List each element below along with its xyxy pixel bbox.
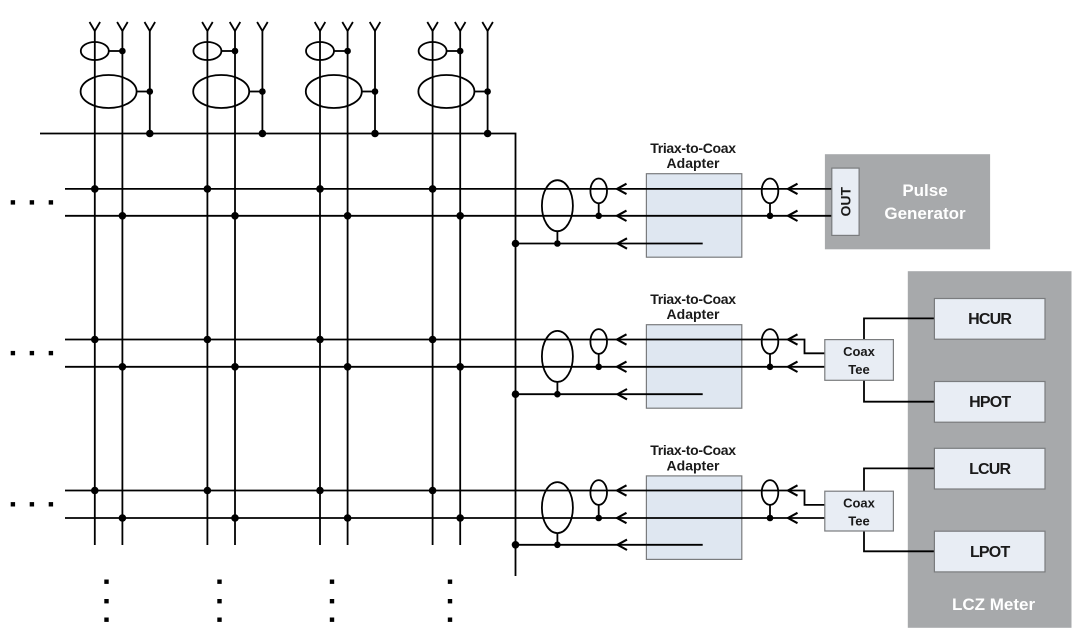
row 1 shield wire 3 [516,243,703,245]
junction row 2 wire1 x column 2a [204,336,212,344]
column group 2 wire c (vertical) [261,31,263,134]
junction: T3 tap on line c [372,88,379,95]
junction: row 3 large core tap [554,542,561,549]
column group 3 line b continuation arrow [342,22,353,31]
wire: core L2a tap to line b [221,50,235,52]
wire: row 3 right small core tap [769,505,771,518]
svg-text:Coax: Coax [843,496,876,511]
small core L4a [419,42,447,60]
wire: row 2 left small core tap [598,354,600,367]
ellipsis dot row group 1.2 [30,200,34,204]
junction row 2 wire2 x column 1b [119,363,127,371]
column group 2 wire b (vertical) [234,31,236,545]
junction row 3 wire1 x column 4a [429,487,437,495]
arrow row 1 wire 1 [617,184,627,194]
junction: line c on top bus [371,130,379,138]
arrow row 2 shield wire [618,389,628,399]
column group 3 wire c (vertical) [374,31,376,134]
junction row 1 wire1 x column 2a [204,185,212,193]
small core row 1 left [590,179,607,204]
ellipsis dot row group 2.1 [11,351,15,355]
column group 4 wire c (vertical) [487,31,489,134]
svg-text:HCUR: HCUR [968,311,1012,328]
row 1 wire 1 (to pulse OUT) [65,188,832,190]
wire: core T1 tap to line c [137,91,150,93]
ellipsis dot column group 4.1 [448,580,452,584]
triax-to-coax adapter box A2 [646,325,741,409]
row 1 wire 2 (to pulse OUT) [65,215,832,217]
wire: row 2 large core tap to shield [556,382,558,394]
junction: L4a tap on line b [457,48,464,55]
svg-text:Generator: Generator [884,204,966,223]
junction: row 2 large core tap [554,391,561,398]
junction row 3 wire1 x column 3a [316,487,324,495]
arrow row 1 shield wire [618,238,628,248]
row 3 wire 1 with jog into coax tee [65,491,825,505]
junction row 2 wire2 x column 2b [231,363,239,371]
row 2 wire 1 with jog into coax tee [65,340,825,354]
junction: row 3 right small core tap [767,515,774,522]
junction: line c on top bus [484,130,492,138]
junction: L2a tap on line b [232,48,239,55]
column group 4 line b continuation arrow [455,22,466,31]
terminal box HPOT [934,382,1045,423]
wire: core L4a tap to line b [447,50,461,52]
column group 4 wire a (vertical) [432,31,434,545]
coax tee box 1 [825,340,894,381]
wire: core T2 tap to line c [249,91,262,93]
ellipsis dot column group 4.3 [448,618,452,622]
junction: line c on top bus [259,130,267,138]
wire coax tee 2 to LCUR [864,468,934,491]
svg-text:Adapter: Adapter [667,306,720,322]
arrow row 1 wire 1 right [788,184,798,194]
large core T2 [193,75,249,108]
svg-text:LCUR: LCUR [969,461,1011,478]
column group 1 wire c (vertical) [149,31,151,134]
terminal box LPOT [934,531,1045,572]
small core L1a [81,42,109,60]
junction: T4 tap on line c [484,88,491,95]
junction row 2 wire2 x column 4b [456,363,464,371]
arrow row 3 wire 2 [617,513,627,523]
column group 4 wire b (vertical) [459,31,461,545]
ellipsis dot column group 1.1 [104,580,108,584]
svg-text:Triax-to-Coax: Triax-to-Coax [650,140,736,156]
junction row 1 wire2 x column 1b [119,212,127,220]
svg-text:LCZ Meter: LCZ Meter [952,595,1036,614]
small core L2a [193,42,221,60]
arrow row 1 wire 2 [617,211,627,221]
junction row 3 wire2 x column 2b [231,514,239,522]
triax-to-coax adapter box A1 [646,174,741,258]
junction row 2 shield on feed line [512,390,520,398]
pulse generator OUT port box [832,168,859,235]
top bus wire to shield feed line [40,134,516,577]
row 3 wire 2 (to coax tee) [65,517,825,519]
wire: row 1 left small core tap [598,203,600,216]
column group 2 wire a (vertical) [206,31,208,545]
column group 4 line a continuation arrow [427,22,438,31]
junction row 1 shield on feed line [512,240,520,248]
junction row 3 wire2 x column 3b [344,514,352,522]
arrow row 2 wire 1 [617,334,627,344]
junction row 1 wire1 x column 1a [91,185,99,193]
ellipsis dot row group 2.3 [49,351,53,355]
column group 1 wire a (vertical) [94,31,96,545]
ellipsis dot column group 3.3 [330,618,334,622]
triax-to-coax adapter box A3 [646,476,741,560]
svg-text:HPOT: HPOT [969,394,1011,411]
ellipsis dot column group 2.1 [217,580,221,584]
ellipsis dot column group 3.1 [330,580,334,584]
wire: core L1a tap to line b [109,50,123,52]
column group 1 line b continuation arrow [117,22,128,31]
coax tee box 2 [825,491,894,531]
wire: row 3 left small core tap [598,505,600,518]
row 2 wire 2 (to coax tee) [65,366,825,368]
row 3 shield wire 3 [516,544,703,546]
svg-text:Tee: Tee [848,362,869,377]
svg-text:Coax: Coax [843,344,876,359]
junction: T1 tap on line c [147,88,154,95]
junction: row 1 right small core tap [767,213,774,220]
large core row 3 [542,482,573,533]
junction: row 2 left small core tap [595,364,602,371]
column group 3 wire a (vertical) [319,31,321,545]
large core row 1 [542,180,573,231]
ellipsis dot row group 3.1 [11,502,15,506]
junction: L3a tap on line b [344,48,351,55]
arrow row 2 wire 2 [617,362,627,372]
small core row 2 left [590,329,607,354]
junction: row 1 large core tap [554,240,561,247]
large core row 2 [542,331,573,382]
wire: row 3 large core tap to shield [556,533,558,545]
ellipsis dot column group 1.2 [104,599,108,603]
LCZ meter instrument box [908,271,1072,628]
ellipsis dot column group 4.2 [448,599,452,603]
junction: row 2 right small core tap [767,364,774,371]
wire: core T4 tap to line c [474,91,487,93]
column group 1 wire b (vertical) [121,31,123,545]
junction row 3 shield on feed line [512,541,520,549]
junction row 2 wire2 x column 3b [344,363,352,371]
small core row 2 right [762,329,779,354]
column group 2 line a continuation arrow [202,22,213,31]
column group 4 line c continuation arrow [482,22,493,31]
small core row 1 right [762,179,779,204]
small core row 3 right [762,480,779,505]
wire: row 1 large core tap to shield [556,231,558,243]
arrow row 1 wire 2 right [788,211,798,221]
column group 2 line c continuation arrow [257,22,268,31]
wire coax tee 2 to LPOT [864,531,934,551]
arrow row 2 wire 2 right [788,362,798,372]
large core T4 [418,75,474,108]
arrow row 2 wire 1 right [788,334,798,344]
ellipsis dot column group 1.3 [104,618,108,622]
arrow row 3 wire 1 right [788,485,798,495]
ellipsis dot row group 3.2 [30,502,34,506]
junction row 2 wire1 x column 4a [429,336,437,344]
junction row 2 wire1 x column 1a [91,336,99,344]
junction row 3 wire2 x column 4b [456,514,464,522]
small core row 3 left [590,480,607,505]
junction: line c on top bus [146,130,154,138]
junction row 2 wire1 x column 3a [316,336,324,344]
junction row 3 wire2 x column 1b [119,514,127,522]
column group 1 line a continuation arrow [90,22,101,31]
wire: core T3 tap to line c [362,91,375,93]
row 2 shield wire 3 [516,393,703,395]
terminal box HCUR [934,299,1045,340]
wire: core L3a tap to line b [334,50,348,52]
svg-text:Triax-to-Coax: Triax-to-Coax [650,442,736,458]
svg-text:Adapter: Adapter [667,457,720,473]
junction row 1 wire2 x column 2b [231,212,239,220]
svg-text:LPOT: LPOT [970,544,1010,561]
large core T1 [81,75,137,108]
column group 3 line a continuation arrow [315,22,326,31]
terminal box LCUR [934,448,1045,489]
junction row 1 wire1 x column 4a [429,185,437,193]
arrow row 3 wire 2 right [788,513,798,523]
junction row 1 wire2 x column 4b [456,212,464,220]
junction: row 3 left small core tap [595,515,602,522]
wire coax tee 1 to HPOT [864,380,934,401]
column group 3 line c continuation arrow [370,22,381,31]
ellipsis dot column group 2.2 [217,599,221,603]
junction: T2 tap on line c [259,88,266,95]
svg-text:Pulse: Pulse [902,181,947,200]
ellipsis dot column group 2.3 [217,618,221,622]
small core L3a [306,42,334,60]
junction: L1a tap on line b [119,48,126,55]
svg-text:OUT: OUT [837,186,853,216]
ellipsis dot row group 1.1 [11,200,15,204]
junction row 1 wire2 x column 3b [344,212,352,220]
ellipsis dot column group 3.2 [330,599,334,603]
junction row 1 wire1 x column 3a [316,185,324,193]
pulse generator instrument box [825,154,990,249]
ellipsis dot row group 2.2 [30,351,34,355]
arrow row 3 wire 1 [617,485,627,495]
svg-text:Adapter: Adapter [667,155,720,171]
ellipsis dot row group 1.3 [49,200,53,204]
svg-text:Tee: Tee [848,514,869,529]
junction row 3 wire1 x column 2a [204,487,212,495]
ellipsis dot row group 3.3 [49,502,53,506]
wire: row 1 right small core tap [769,203,771,216]
column group 1 line c continuation arrow [145,22,156,31]
wire: row 2 right small core tap [769,354,771,367]
arrow row 3 shield wire [618,540,628,550]
svg-text:Triax-to-Coax: Triax-to-Coax [650,291,736,307]
junction: row 1 left small core tap [595,213,602,220]
large core T3 [306,75,362,108]
junction row 3 wire1 x column 1a [91,487,99,495]
column group 3 wire b (vertical) [347,31,349,545]
column group 2 line b continuation arrow [230,22,241,31]
wire coax tee 1 to HCUR [864,318,934,339]
